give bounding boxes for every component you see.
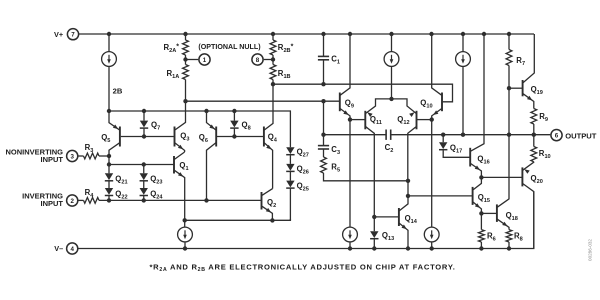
- label 2B: [113, 86, 123, 95]
- node noninv junction: [107, 154, 111, 158]
- wire node A (R1A to Q9 base): [186, 100, 340, 102]
- transistor Q2: [262, 189, 273, 221]
- resistor R3: [84, 153, 100, 159]
- wire Q5 base to Q3 base: [121, 136, 174, 138]
- svg-text:4: 4: [70, 246, 74, 253]
- wire Q19 base: [509, 87, 522, 89]
- diode Q7: [140, 111, 148, 137]
- label R5: [331, 163, 340, 174]
- svg-text:1: 1: [203, 57, 207, 64]
- label Q17: [450, 144, 462, 155]
- wire V- rail: [78, 192, 534, 249]
- label Q15: [478, 193, 490, 204]
- label Q19: [531, 85, 543, 96]
- wire pin2 to R4: [78, 199, 84, 201]
- node second rail junctions: [271, 82, 326, 86]
- diode Q13: [370, 217, 378, 249]
- transistor Q1: [174, 152, 185, 220]
- label Q16: [477, 155, 489, 166]
- resistor R6: [479, 213, 485, 248]
- label R1A: [167, 69, 180, 80]
- wire to pin 1: [186, 59, 199, 61]
- label Q26: [297, 164, 309, 175]
- current source I5: [343, 120, 358, 249]
- node Q13 anode: [372, 215, 376, 219]
- label R2A: [164, 43, 180, 54]
- label Q2: [267, 198, 276, 209]
- node C3 junction: [321, 133, 325, 137]
- capacitor C2: [386, 130, 391, 140]
- diode Q17: [439, 135, 470, 158]
- label inverting input: [22, 192, 63, 209]
- svg-text:7: 7: [71, 32, 75, 39]
- label Q24: [150, 189, 163, 200]
- wire Q15 base: [408, 195, 472, 197]
- current source I1: [102, 34, 117, 111]
- current source I6: [424, 120, 439, 249]
- transistor Q9: [340, 34, 350, 120]
- wire Q9 to Q11 base: [350, 119, 365, 121]
- label R4: [85, 188, 95, 199]
- current source I4: [178, 220, 193, 248]
- wire C2 right (output node line): [391, 134, 534, 136]
- label Q21: [115, 174, 127, 185]
- svg-text:6: 6: [555, 132, 559, 139]
- node R7 bottom: [507, 86, 511, 90]
- wire Q12 base to node: [416, 119, 432, 121]
- label Q7: [151, 121, 160, 132]
- transistor Q20: [522, 162, 533, 249]
- resistor R2A: [183, 34, 189, 65]
- svg-text:00286-032: 00286-032: [588, 239, 593, 261]
- resistor R5: [321, 157, 408, 181]
- svg-text:V–: V–: [54, 244, 63, 253]
- label Q5: [101, 133, 110, 144]
- transistor Q16: [470, 34, 484, 177]
- node Q16 emitter: [479, 175, 483, 179]
- svg-text:(OPTIONAL NULL): (OPTIONAL NULL): [198, 43, 261, 51]
- label Q4: [268, 133, 278, 144]
- node Q1 base junctions: [107, 162, 146, 166]
- node A junctions: [183, 99, 325, 103]
- pin 8 null: [252, 54, 263, 65]
- resistor R7: [506, 34, 512, 135]
- wire Q18 base: [481, 212, 496, 214]
- capacitor C3: [318, 146, 329, 157]
- wire pin8 to R2B: [264, 59, 273, 61]
- diode Q8: [230, 111, 238, 137]
- wire inverting line: [99, 199, 261, 201]
- resistor R10: [531, 135, 537, 162]
- label R10: [539, 149, 551, 160]
- node output line junctions: [441, 133, 536, 137]
- pin 3 noninverting: [67, 150, 78, 161]
- label Q13: [382, 231, 394, 242]
- transistor Q6: [207, 111, 217, 200]
- svg-text:V+: V+: [54, 30, 63, 39]
- svg-text:OUTPUT: OUTPUT: [565, 131, 597, 140]
- footnote: [150, 262, 456, 273]
- label R6: [487, 232, 496, 243]
- transistor Q15: [473, 177, 482, 213]
- wire tail line: [185, 219, 291, 220]
- label R3: [85, 143, 94, 154]
- diode Q26: [286, 164, 294, 181]
- label noninverting input: [5, 147, 63, 164]
- svg-text:3: 3: [70, 153, 74, 160]
- node R2B/R1B junction: [271, 57, 275, 61]
- resistor R1A: [183, 65, 189, 102]
- node Q14 collector junctions: [406, 179, 410, 198]
- label Q10: [420, 99, 432, 110]
- node inverting junctions: [107, 198, 209, 202]
- svg-text:8: 8: [256, 57, 260, 64]
- label Q3: [180, 132, 189, 143]
- wire output: [534, 134, 551, 136]
- svg-text:INPUT: INPUT: [41, 155, 64, 164]
- wire C3 string top: [323, 101, 325, 145]
- transistor Q18: [497, 135, 509, 230]
- label R9: [539, 112, 548, 123]
- wire Q6 base to Q4 base: [217, 136, 263, 138]
- current source I2: [384, 34, 399, 99]
- node Q8 cathode: [232, 134, 236, 138]
- resistor R2B: [270, 34, 276, 65]
- wire Q14 base: [374, 216, 398, 218]
- node Q7 cathode: [142, 134, 146, 138]
- transistor Q5: [109, 111, 120, 156]
- svg-text:2B: 2B: [113, 86, 123, 95]
- node Q15 emitter: [479, 211, 483, 215]
- label OUTPUT: [565, 131, 597, 140]
- resistor R4: [84, 198, 100, 204]
- label C3: [331, 145, 340, 156]
- current source I3: [456, 34, 471, 135]
- label Q14: [405, 214, 418, 225]
- transistor Q14: [399, 181, 408, 249]
- label Q8: [242, 121, 251, 132]
- wire pin3 to R3: [78, 155, 84, 157]
- node tail junctions: [183, 218, 275, 222]
- label Q25: [297, 181, 309, 192]
- label C2: [385, 143, 394, 154]
- diode Q25: [286, 181, 294, 221]
- label Q27: [297, 148, 309, 159]
- wire V+ top rail: [78, 33, 534, 35]
- diode Q27: [286, 147, 294, 164]
- label Q22: [115, 189, 127, 200]
- transistor Q19: [523, 34, 535, 109]
- transistor Q3: [175, 101, 186, 152]
- label Q6: [199, 133, 208, 144]
- wire Q20 base: [481, 176, 522, 178]
- label R8: [514, 232, 523, 243]
- capacitor C1: [318, 34, 329, 84]
- node top rail junctions: [107, 32, 511, 36]
- label Q18: [506, 211, 518, 222]
- diode Q22: [105, 188, 113, 200]
- transistor Q11: [365, 99, 391, 217]
- diode Q24: [140, 188, 148, 200]
- label Q9: [345, 99, 354, 110]
- label C1: [331, 55, 340, 66]
- svg-text:2: 2: [70, 198, 74, 205]
- diode Q23: [140, 165, 148, 189]
- label Q12: [397, 115, 409, 126]
- label R1B: [278, 69, 291, 80]
- transistor Q4: [264, 84, 273, 188]
- pin 1 null: [199, 54, 210, 65]
- wire R3 to node: [99, 155, 109, 157]
- pin 6 output: [551, 130, 562, 141]
- wire second rail: [273, 84, 453, 102]
- label Q23: [150, 174, 162, 185]
- node R2A/R1A junction: [183, 57, 187, 61]
- svg-text:INPUT: INPUT: [41, 199, 64, 208]
- wire Q1 base line: [109, 156, 174, 165]
- wire C2 left: [324, 134, 386, 136]
- resistor R1B: [270, 65, 276, 85]
- transistor Q10: [432, 34, 442, 120]
- diode Q21: [105, 165, 113, 189]
- label Q1: [179, 161, 188, 172]
- label optional null: [198, 43, 261, 51]
- node Q10 collector: [430, 117, 434, 121]
- pin 4 V-: [54, 243, 78, 254]
- node bias junctions: [107, 109, 237, 113]
- resistor R8: [506, 230, 512, 249]
- transistor Q12: [392, 99, 417, 181]
- label Q11: [370, 115, 382, 126]
- resistor R9: [531, 109, 537, 135]
- wire bias line: [109, 111, 290, 147]
- label R2B: [278, 43, 294, 54]
- pin 2 inverting: [67, 195, 78, 206]
- label Q20: [531, 174, 543, 185]
- label R7: [516, 56, 525, 67]
- pin 7 V+: [54, 29, 79, 40]
- node Q9 collector: [348, 117, 352, 121]
- figure number: [588, 239, 593, 261]
- node V- junctions: [183, 246, 511, 250]
- node Q11/Q12 collector: [389, 97, 393, 101]
